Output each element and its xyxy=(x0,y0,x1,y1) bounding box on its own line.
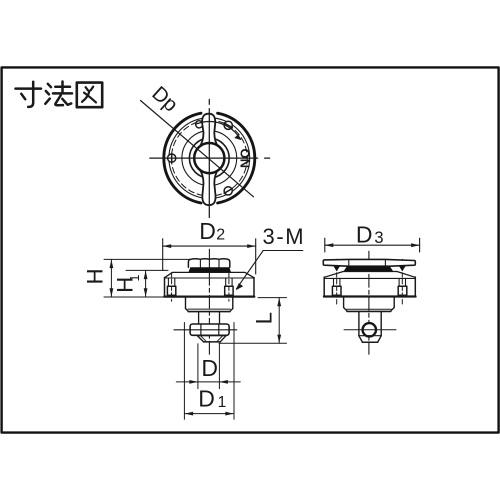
D3 arrow right xyxy=(411,243,420,247)
D2 arrow left xyxy=(163,244,172,248)
left hole (side) xyxy=(332,279,341,295)
svg-text:D: D xyxy=(356,222,373,248)
hole dashed centerlines xyxy=(336,259,338,304)
nut / cross-hole boss xyxy=(190,324,229,335)
screw bottom-right xyxy=(224,187,232,195)
dashed bolt circle r37.9 xyxy=(171,120,247,196)
3-M leader arrowhead xyxy=(236,283,243,290)
hole marker triangles xyxy=(333,266,340,272)
H arrow top xyxy=(110,260,114,269)
svg-text:3-M: 3-M xyxy=(263,224,306,249)
D2 arrow right xyxy=(247,244,256,248)
screw top-right xyxy=(224,121,232,129)
arc arrowhead xyxy=(234,134,241,140)
D1 arrow left xyxy=(185,412,194,416)
circle r40.4 xyxy=(169,118,250,199)
svg-text:1: 1 xyxy=(128,275,142,282)
D3 arrow left xyxy=(325,243,334,247)
H1 dimension xyxy=(126,270,168,297)
title 寸法図 (drawn as strokes) xyxy=(16,82,103,108)
svg-text:L: L xyxy=(252,312,277,324)
svg-text:D: D xyxy=(198,386,215,412)
hub circle bold xyxy=(194,143,224,173)
border frame xyxy=(2,67,499,432)
D1 arrow right xyxy=(225,412,234,416)
tip xyxy=(197,336,226,342)
flange xyxy=(164,272,254,296)
right screw hole xyxy=(225,273,233,302)
circle r19.9 xyxy=(189,138,229,178)
right hole (side) xyxy=(398,279,407,295)
lever top wing xyxy=(199,114,218,153)
left screw hole xyxy=(167,273,175,302)
L arrow bottom xyxy=(277,335,281,344)
lever bottom wing xyxy=(199,164,218,206)
body (side) xyxy=(344,297,395,312)
vertical centerline xyxy=(368,251,370,354)
tip (side) xyxy=(359,336,381,343)
vertical centerline xyxy=(208,99,210,217)
D arrow right xyxy=(219,380,228,384)
flange (side) xyxy=(324,272,416,297)
stem (side) xyxy=(358,312,360,336)
D arrow left xyxy=(189,380,198,384)
svg-text:ON: ON xyxy=(237,149,252,169)
L arrow top xyxy=(277,298,281,307)
stem xyxy=(198,312,200,324)
H arrow bottom xyxy=(110,288,114,297)
svg-text:1: 1 xyxy=(218,394,227,411)
svg-text:H: H xyxy=(82,269,107,285)
body xyxy=(186,297,233,312)
screw left xyxy=(168,153,176,163)
H1 arrow top xyxy=(144,271,148,280)
C mark xyxy=(196,121,203,128)
lever (side) xyxy=(323,259,415,266)
outer circle (flange rim) xyxy=(218,113,255,203)
寸 xyxy=(16,87,42,90)
cross hole circle xyxy=(363,323,376,336)
rotation arc arrow xyxy=(197,122,241,140)
Dp diagonal line xyxy=(141,101,254,197)
nut horizontal centerline xyxy=(174,329,237,331)
horizontal centerline xyxy=(150,157,270,159)
knob xyxy=(188,259,229,268)
vertical centerline xyxy=(208,249,210,355)
svg-text:2: 2 xyxy=(216,227,225,244)
図 xyxy=(77,83,102,108)
dark band (side) xyxy=(344,266,394,271)
dark band under knob xyxy=(188,267,231,272)
svg-text:D: D xyxy=(201,355,218,381)
svg-text:D: D xyxy=(199,218,216,244)
法 xyxy=(48,84,51,87)
H1 arrow bottom xyxy=(144,288,148,297)
circle r27.4 xyxy=(182,131,237,186)
svg-text:3: 3 xyxy=(374,229,383,247)
